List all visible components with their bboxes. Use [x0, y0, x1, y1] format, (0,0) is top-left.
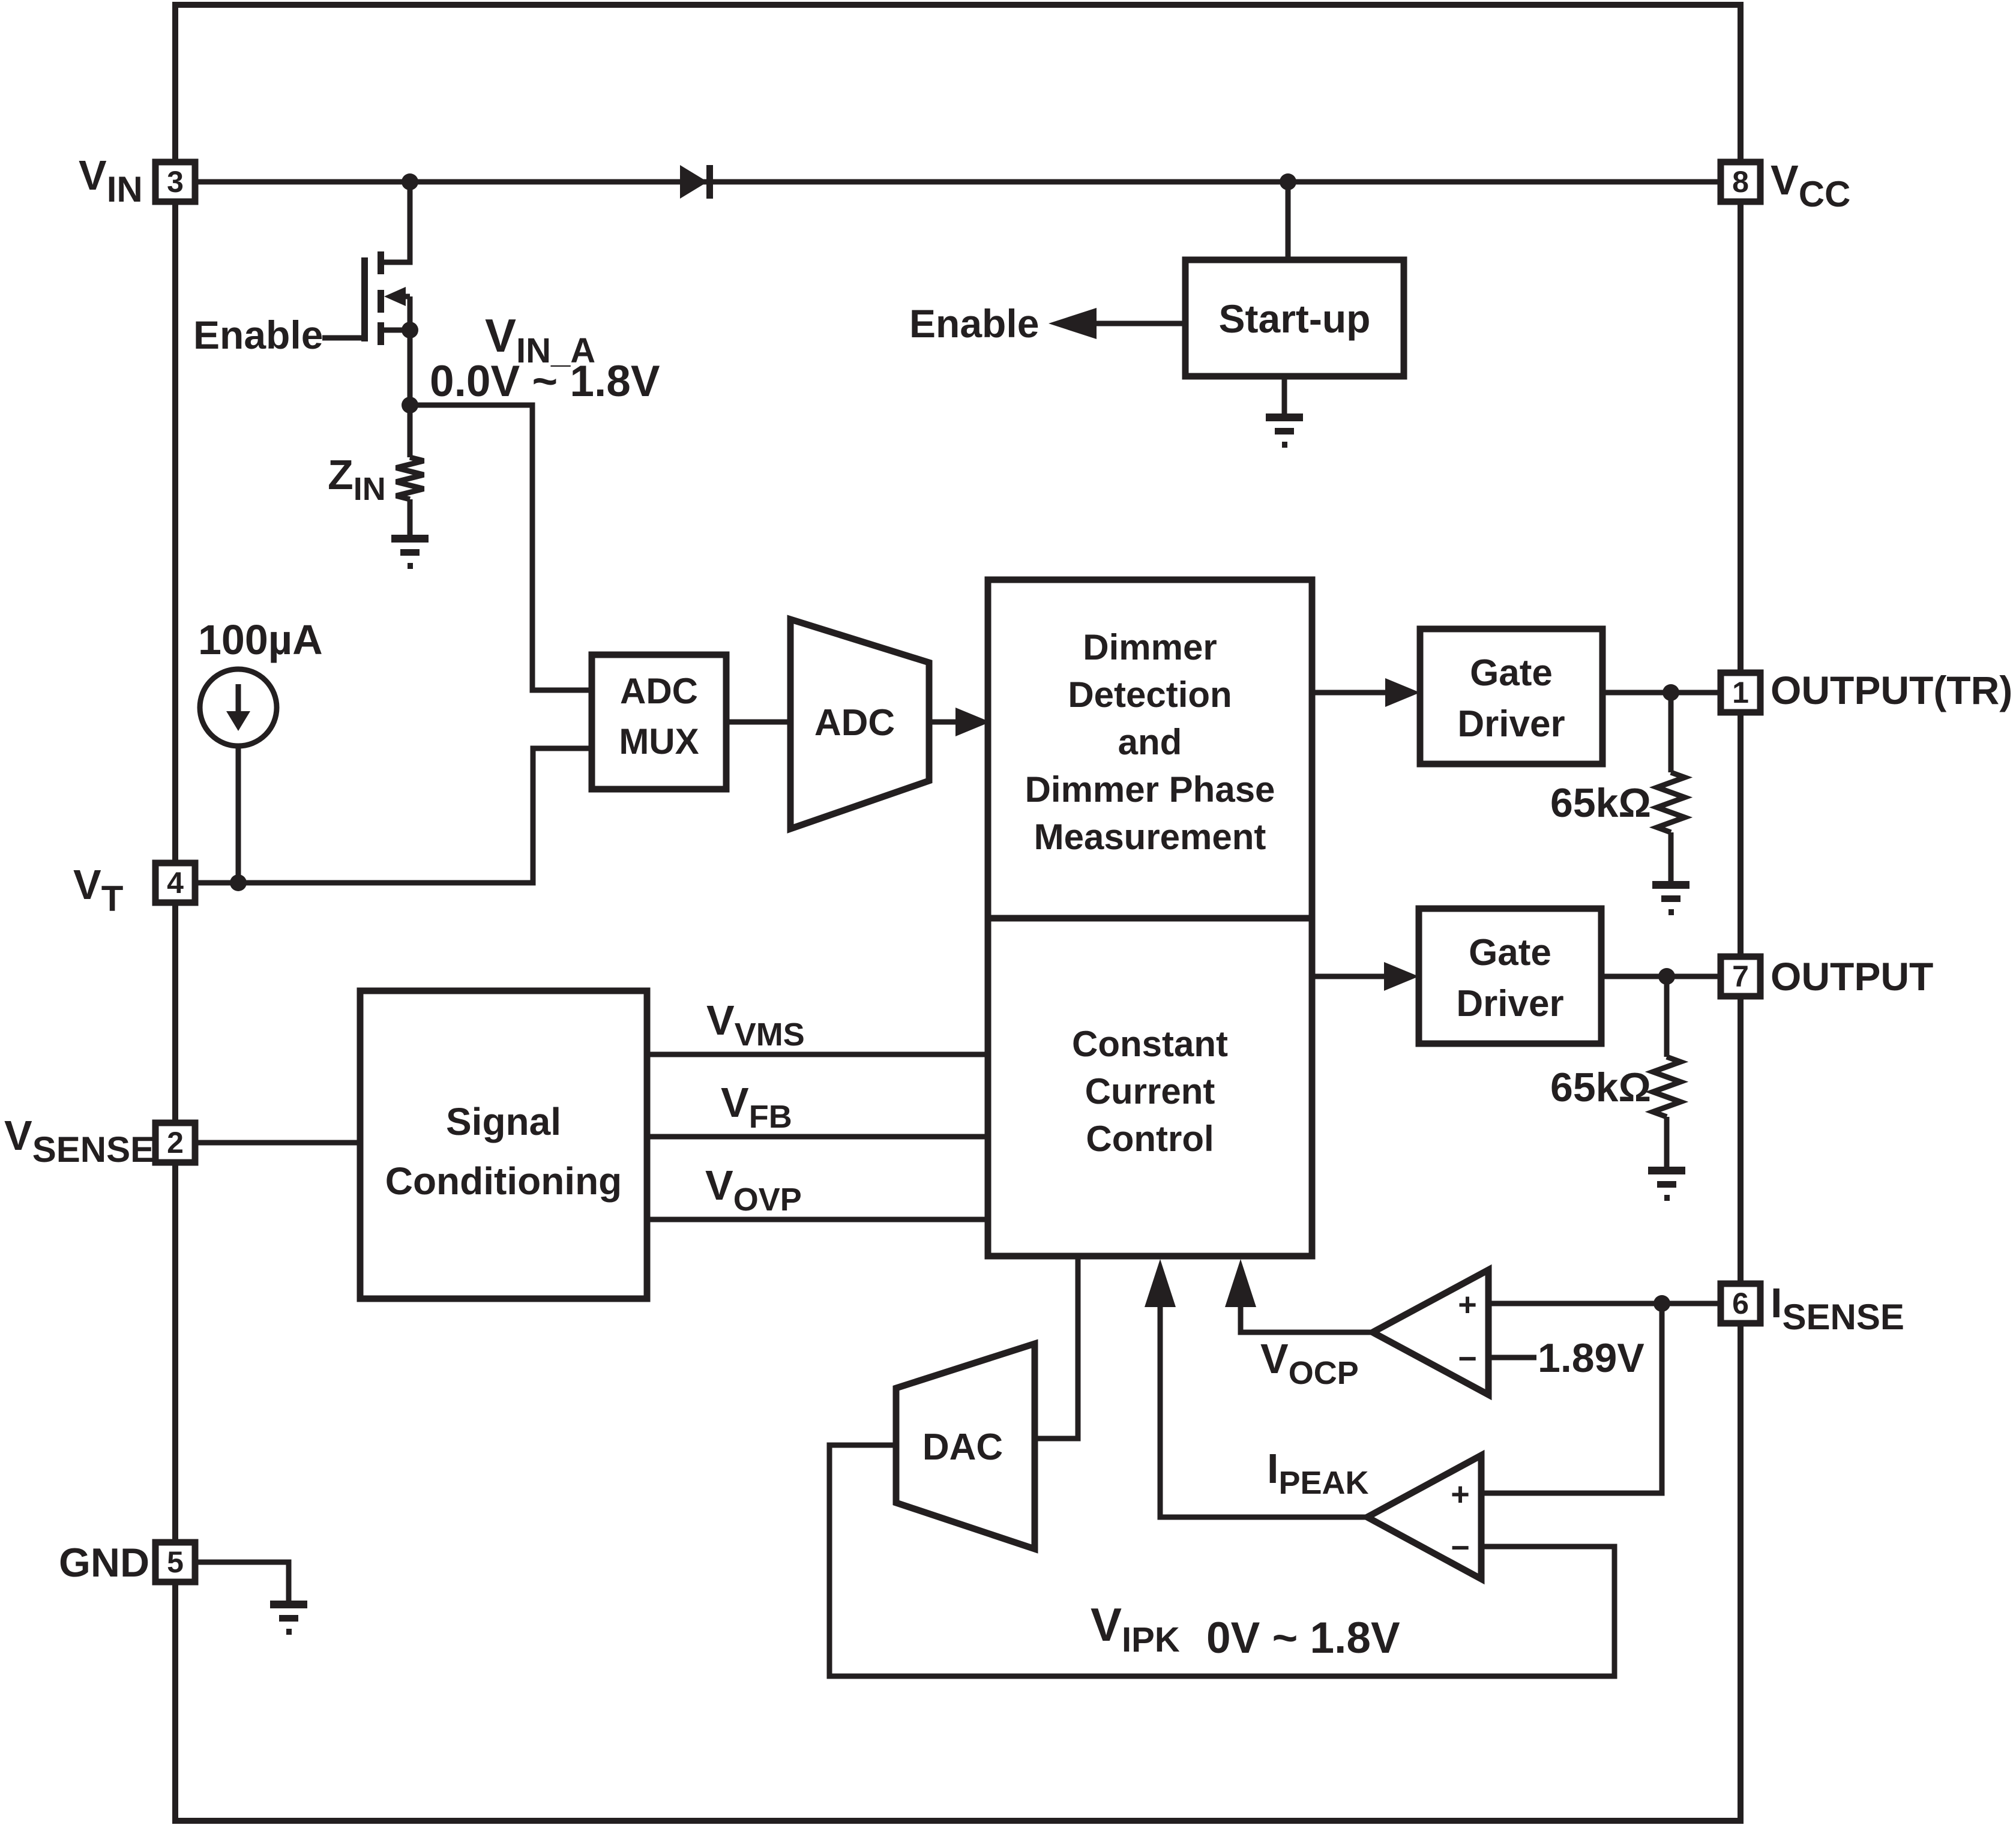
- svg-text:1: 1: [1732, 676, 1749, 709]
- wire VIN to VCC rail: [195, 179, 1721, 185]
- svg-text:Detection: Detection: [1068, 675, 1232, 715]
- wire GND pin to ground: [195, 1562, 289, 1602]
- svg-text:+: +: [1458, 1287, 1477, 1323]
- Q1 body arrow: [397, 294, 410, 299]
- svg-text:Enable: Enable: [909, 301, 1039, 346]
- pin 1 OUTPUT(TR): [1721, 673, 1760, 712]
- block Gate Driver 2: [1419, 909, 1601, 1044]
- svg-text:Gate: Gate: [1469, 932, 1551, 973]
- svg-text:GND: GND: [59, 1540, 149, 1586]
- svg-text:ISENSE: ISENSE: [1771, 1279, 1904, 1337]
- ground (GND pin): [270, 1601, 307, 1608]
- wire Enable to gate: [322, 335, 364, 341]
- svg-text:3: 3: [167, 165, 184, 199]
- svg-text:Driver: Driver: [1457, 703, 1565, 745]
- block Constant Current Control: [988, 918, 1312, 1256]
- IC boundary: [175, 5, 1741, 1821]
- wire Gate Driver 2 to pin 7: [1601, 974, 1721, 979]
- svg-text:OUTPUT(TR): OUTPUT(TR): [1771, 668, 2012, 712]
- wire DAC output to Constant Current Control: [1035, 1256, 1078, 1439]
- svg-text:ZIN: ZIN: [328, 451, 386, 507]
- wire Dimmer Detection to Gate Driver 1 (arrow): [1312, 690, 1389, 696]
- wire R1 to ground: [1668, 832, 1674, 882]
- block Signal Conditioning: [360, 991, 647, 1299]
- transistor Q1 PMOS channel: [378, 251, 384, 274]
- svg-text:ADC: ADC: [620, 671, 698, 711]
- svg-text:OUTPUT: OUTPUT: [1771, 954, 1933, 999]
- pin 4 VT: [155, 863, 195, 903]
- svg-text:Driver: Driver: [1456, 983, 1563, 1024]
- svg-text:Signal: Signal: [446, 1100, 561, 1143]
- wire current source to VT rail: [236, 746, 241, 883]
- wire VFB: [647, 1134, 991, 1140]
- wire VOVP: [647, 1217, 991, 1222]
- resistor R2 65k: [1653, 1057, 1681, 1117]
- ground (R2): [1648, 1167, 1685, 1174]
- svg-text:2: 2: [167, 1126, 184, 1159]
- svg-text:VFB: VFB: [721, 1079, 792, 1135]
- wire VVMS: [647, 1052, 991, 1057]
- node output TR: [1662, 684, 1679, 701]
- wire U1 - input to 1.89V: [1488, 1355, 1536, 1360]
- ground (ZIN): [391, 535, 429, 543]
- svg-text:−: −: [1451, 1530, 1470, 1566]
- svg-text:1.89V: 1.89V: [1538, 1335, 1644, 1381]
- svg-text:6: 6: [1732, 1287, 1749, 1320]
- node output: [1658, 968, 1675, 985]
- svg-text:ADC: ADC: [814, 702, 895, 744]
- wire to resistor R1: [1668, 693, 1674, 772]
- svg-text:7: 7: [1732, 960, 1749, 993]
- svg-text:VOVP: VOVP: [705, 1162, 802, 1218]
- svg-text:IPEAK: IPEAK: [1267, 1445, 1368, 1501]
- svg-text:−: −: [1458, 1341, 1477, 1377]
- wire VCC node to Start-up: [1286, 182, 1291, 260]
- svg-text:DAC: DAC: [922, 1427, 1003, 1468]
- svg-text:VCC: VCC: [1771, 157, 1850, 214]
- svg-text:VSENSE: VSENSE: [4, 1112, 154, 1170]
- ground (R1): [1652, 881, 1690, 889]
- block Start-up: [1185, 260, 1404, 376]
- resistor R1 65k: [1657, 772, 1685, 832]
- wire VSENSE pin to Signal Conditioning: [195, 1140, 360, 1146]
- svg-text:VT: VT: [73, 861, 123, 919]
- node VCC junction: [1280, 173, 1296, 190]
- svg-text:Control: Control: [1086, 1119, 1214, 1159]
- svg-text:VVMS: VVMS: [706, 997, 805, 1053]
- svg-text:65kΩ: 65kΩ: [1550, 1065, 1651, 1110]
- resistor ZIN: [396, 457, 424, 499]
- wire ISENSE to comparator U2 + input: [1481, 1303, 1662, 1493]
- svg-text:0.0V ~ 1.8V: 0.0V ~ 1.8V: [430, 357, 660, 406]
- svg-text:Dimmer: Dimmer: [1083, 627, 1217, 667]
- wire R2 to ground: [1664, 1117, 1670, 1168]
- wire U1 output to Constant Current Control (arrow): [1241, 1290, 1373, 1332]
- wire to resistor R2: [1664, 976, 1670, 1057]
- wire Constant Current Control to Gate Driver 2 (arrow): [1312, 974, 1388, 979]
- svg-text:Conditioning: Conditioning: [385, 1159, 622, 1203]
- pin 5 GND: [155, 1542, 195, 1582]
- wire ZIN to ground: [408, 499, 413, 536]
- svg-text:Current: Current: [1085, 1071, 1215, 1111]
- wire Start-up to ground: [1282, 376, 1287, 415]
- wire VIN node to PMOS drain: [381, 182, 410, 262]
- wire Start-up Enable output (arrow): [1092, 321, 1185, 326]
- svg-text:VIPK: VIPK: [1091, 1598, 1180, 1659]
- pin 2 VSENSE: [155, 1123, 195, 1162]
- wire ADC to Dimmer Detection (arrow): [929, 720, 960, 725]
- svg-text:Gate: Gate: [1470, 652, 1553, 694]
- svg-text:VOCP: VOCP: [1260, 1335, 1359, 1391]
- svg-text:Enable: Enable: [193, 313, 323, 357]
- svg-text:4: 4: [167, 866, 184, 900]
- svg-text:MUX: MUX: [619, 721, 699, 762]
- node ISENSE junction: [1653, 1295, 1670, 1312]
- svg-text:8: 8: [1732, 165, 1749, 199]
- node VIN junction: [402, 173, 418, 190]
- wire VIN_A to ADC MUX input A: [410, 405, 592, 690]
- pin 3 VIN: [155, 162, 195, 202]
- pin 6 ISENSE: [1721, 1284, 1760, 1323]
- svg-text:+: +: [1451, 1476, 1470, 1512]
- svg-text:65kΩ: 65kΩ: [1550, 780, 1651, 826]
- wire Q1 to VIN_A node: [408, 296, 413, 405]
- svg-text:VIN: VIN: [79, 152, 143, 209]
- pin 8 VCC: [1721, 162, 1760, 202]
- comparator U1 (VOCP): [1373, 1270, 1488, 1395]
- wire VT pin to ADC MUX input B: [195, 748, 592, 883]
- node Q1 source: [402, 322, 418, 338]
- wire U2 output to Constant Current Control (arrow): [1160, 1290, 1367, 1517]
- comparator U2 (IPEAK): [1367, 1455, 1481, 1579]
- diode D1: [680, 165, 708, 199]
- wire Gate Driver 1 to pin 1: [1602, 690, 1721, 696]
- svg-text:0V ~ 1.8V: 0V ~ 1.8V: [1206, 1614, 1400, 1662]
- wire VIN_A to ZIN: [408, 405, 413, 457]
- ground (Start-up): [1266, 413, 1303, 421]
- node VIN_A: [402, 397, 418, 413]
- svg-text:Dimmer Phase: Dimmer Phase: [1025, 769, 1275, 810]
- block Dimmer Detection and Dimmer Phase Measurement: [988, 580, 1312, 918]
- wire U2 - input feedback VIPK: [829, 1445, 1614, 1676]
- svg-text:and: and: [1118, 722, 1182, 762]
- block ADC MUX: [592, 655, 726, 789]
- current source I1 100uA: [200, 669, 277, 746]
- block ADC (trapezoid): [790, 619, 929, 829]
- svg-text:Measurement: Measurement: [1034, 817, 1266, 857]
- wire ISENSE pin to comparator U1 + input: [1488, 1301, 1721, 1306]
- pin 7 OUTPUT: [1721, 957, 1760, 996]
- wire ADC MUX to ADC: [726, 720, 791, 725]
- wire Q1 source stub: [381, 328, 410, 333]
- block Gate Driver 1: [1420, 629, 1602, 764]
- svg-text:Constant: Constant: [1072, 1024, 1228, 1064]
- block DAC (trapezoid): [896, 1344, 1035, 1549]
- svg-text:100µA: 100µA: [198, 616, 323, 663]
- node VT junction: [230, 874, 247, 891]
- svg-text:Start-up: Start-up: [1219, 296, 1371, 341]
- transistor Q1 gate bar: [361, 257, 368, 341]
- svg-text:5: 5: [167, 1545, 184, 1579]
